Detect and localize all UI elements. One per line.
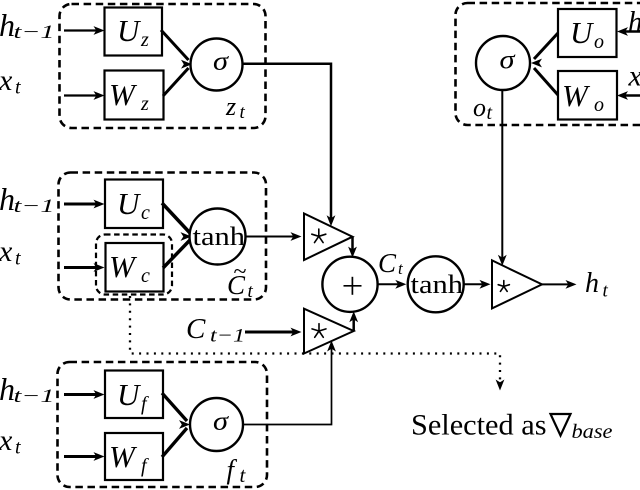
svg-text:t: t [15, 77, 21, 99]
svg-text:U: U [117, 186, 142, 221]
svg-text:tanh: tanh [193, 222, 246, 251]
svg-text:U: U [117, 13, 142, 48]
svg-text:h: h [585, 268, 599, 299]
label h_{t-1} (c input) [0, 181, 55, 217]
wire h_{t-1} to U_z [64, 26, 105, 35]
dashed box around W_c [96, 235, 172, 295]
svg-text:tanh: tanh [411, 270, 464, 299]
tanh node c [190, 209, 246, 265]
wire z output to mult1 [243, 64, 336, 227]
wire tanh2 to mult3 [464, 280, 491, 289]
box W_o [558, 71, 617, 120]
label x_t (o input, clipped) [628, 60, 640, 93]
label x_t (z input) [0, 64, 21, 99]
svg-text:o: o [594, 94, 604, 116]
svg-text:t: t [487, 102, 493, 124]
svg-text:z: z [140, 93, 149, 115]
svg-text:W: W [109, 77, 138, 112]
wire h_{t-1} to U_c [64, 200, 105, 209]
dashed box o-gate [456, 3, 640, 125]
wire tanh to mult1 [246, 232, 302, 241]
svg-text:C: C [186, 313, 206, 345]
star in mult3 [498, 281, 509, 292]
label x_t (f input) [0, 424, 21, 459]
wire W_z to sigma [163, 60, 192, 96]
label base subscript [572, 421, 613, 443]
svg-text:base: base [572, 421, 613, 443]
box U_z [105, 8, 163, 56]
svg-text:t: t [398, 259, 404, 278]
svg-text:c: c [141, 202, 150, 224]
svg-text:Selected as: Selected as [411, 410, 547, 442]
svg-text:f: f [141, 393, 149, 415]
label C~_t [227, 259, 254, 302]
svg-text:W: W [109, 249, 138, 284]
label h_{t-1} (o input, clipped) [628, 6, 640, 39]
sigma node f [190, 398, 243, 451]
svg-text:z: z [140, 29, 149, 51]
svg-text:x: x [0, 235, 13, 268]
box U_f [105, 371, 163, 419]
label h_{t-1} (z input) [0, 7, 55, 43]
svg-text:c: c [141, 265, 150, 287]
wire h_{t-1} to U_f [64, 390, 105, 399]
svg-text:t−1: t−1 [14, 196, 55, 217]
multiplier mult3 (triangle) [492, 260, 542, 308]
wire x_t to W_f [64, 452, 105, 461]
wire U_c to tanh [162, 203, 190, 233]
plus node [322, 257, 377, 312]
wire C_{t-1} to mult2 [245, 328, 302, 337]
label f_t [227, 455, 247, 488]
sigma node o [476, 36, 530, 90]
svg-text:x: x [628, 60, 640, 93]
svg-text:σ: σ [213, 407, 229, 436]
wire W_o to sigma [531, 59, 558, 95]
svg-text:W: W [562, 78, 591, 113]
box W_c [106, 243, 164, 292]
svg-text:f: f [227, 455, 238, 485]
svg-text:t−1: t−1 [210, 326, 245, 347]
dashed box z-gate [60, 4, 266, 128]
dotted wire W_c to nabla selection [130, 296, 504, 391]
wire W_f to sigma [162, 420, 190, 457]
label C_t [378, 248, 404, 278]
wire f output to mult2 [244, 341, 336, 425]
svg-text:t: t [248, 281, 254, 302]
svg-text:U: U [117, 377, 142, 412]
svg-text:σ: σ [213, 47, 229, 76]
multiplier mult2 (triangle) [304, 309, 354, 354]
wire x_t to W_z [64, 91, 105, 100]
sigma node z [191, 39, 243, 91]
svg-text:t: t [603, 281, 609, 302]
svg-text:o: o [473, 93, 486, 122]
box U_c [105, 180, 163, 229]
wire x_t to W_o [617, 91, 640, 100]
svg-text:z: z [225, 92, 236, 121]
box U_o [558, 9, 617, 57]
svg-text:C: C [378, 248, 397, 278]
svg-text:t: t [15, 248, 21, 270]
svg-text:x: x [0, 64, 13, 97]
svg-text:~: ~ [234, 259, 247, 285]
svg-text:t: t [15, 437, 21, 459]
label h_{t-1} (f input) [0, 371, 55, 407]
svg-text:h: h [628, 6, 640, 38]
label Selected as nabla_base [411, 410, 547, 442]
star in mult1 [312, 229, 326, 243]
wire o output to mult3 [498, 90, 507, 266]
label z_t [225, 92, 246, 123]
svg-text:t: t [240, 102, 246, 123]
star in mult2 [312, 324, 326, 338]
svg-text:W: W [109, 439, 138, 474]
multiplier mult1 (triangle) [304, 214, 353, 261]
svg-text:U: U [570, 15, 595, 50]
wire W_c to tanh [163, 232, 192, 268]
svg-text:o: o [594, 31, 604, 53]
wire U_f to sigma [162, 393, 187, 421]
nabla symbol [551, 414, 571, 436]
wire plus to tanh2 [378, 280, 407, 289]
svg-text:σ: σ [500, 45, 516, 74]
svg-text:t−1: t−1 [14, 386, 55, 407]
label x_t (c input) [0, 235, 21, 270]
wire mult1 to plus [348, 237, 357, 258]
label o_t [473, 93, 493, 124]
svg-text:t: t [240, 463, 247, 487]
tanh node mid [408, 256, 464, 312]
wire U_z to sigma [161, 30, 189, 60]
wire mult3 to h_t [542, 280, 577, 289]
dashed box c-gate [59, 173, 267, 300]
box W_z [105, 71, 164, 120]
dashed box f-gate [58, 362, 268, 487]
wire x_t to W_c [64, 263, 105, 272]
label C_{t-1} [186, 313, 245, 347]
wire U_o to sigma [534, 33, 558, 59]
svg-text:f: f [141, 455, 149, 477]
wire mult2 to plus [349, 311, 358, 331]
wire h_{t-1} to U_o [617, 27, 640, 36]
box W_f [105, 433, 163, 480]
svg-text:x: x [0, 424, 13, 457]
label h_t (output) [585, 268, 609, 302]
svg-text:t−1: t−1 [14, 22, 55, 43]
